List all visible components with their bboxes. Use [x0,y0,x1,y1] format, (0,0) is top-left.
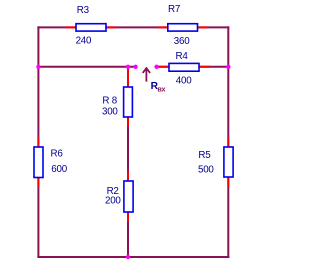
svg-text:R5: R5 [198,150,211,161]
svg-text:200: 200 [105,195,121,206]
resistor R3 body [76,24,106,31]
svg-text:R3: R3 [77,5,90,16]
junction node left [36,65,40,69]
wire middle horizontal left [38,66,135,68]
resistor R3 leads [66,26,117,28]
resistor R8 body [124,87,133,117]
resistor R7 leads [158,26,209,28]
svg-text:R4: R4 [176,51,189,62]
arrow Rvx shaft [145,68,147,81]
wire middle horizontal right [157,66,229,68]
resistor R6 body [34,147,43,178]
svg-text:400: 400 [176,76,192,87]
wire right [227,26,229,258]
svg-text:вх: вх [157,85,165,94]
terminal node B [154,65,158,69]
wire left [37,26,39,258]
svg-text:R 8: R 8 [102,95,117,106]
resistor R7 body [168,24,198,31]
resistor R2 body [124,181,133,212]
svg-text:R7: R7 [168,4,180,15]
svg-text:500: 500 [198,165,214,176]
junction node bottom [126,255,130,259]
resistor R8 leads [127,68,129,127]
resistor R4 body [169,63,199,71]
svg-text:360: 360 [174,36,190,47]
resistor R4 leads [158,66,210,68]
wire bottom [37,256,229,258]
arrow Rvx head [143,68,150,73]
resistor R5 leads [227,137,229,187]
wire top [37,26,229,28]
junction node right [226,65,230,69]
svg-text:600: 600 [51,164,67,175]
resistor R6 leads [37,137,39,188]
wire middle vertical [127,67,129,257]
resistor R5 body [224,147,233,177]
resistor R2 leads [127,171,129,222]
svg-text:R6: R6 [51,148,64,159]
terminal node A [133,65,137,69]
junction node middle [126,65,130,69]
svg-text:240: 240 [76,36,92,47]
svg-text:300: 300 [102,106,118,117]
